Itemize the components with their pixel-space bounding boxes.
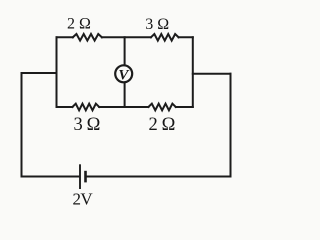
wire: outer right vertical [230,74,232,177]
svg-text:3 Ω: 3 Ω [74,115,100,135]
voltmeter U1 circle [115,65,132,82]
wire: outer left vertical [21,73,23,177]
resistor R1 2ohm top-left [73,34,102,41]
wire: bottom-left segment of bridge [57,106,73,108]
wire: bridge left edge [56,37,58,107]
resistor R4 2ohm bottom-right [148,104,175,111]
wire: bottom left of battery [22,176,80,178]
battery B1 short plate [84,171,87,183]
svg-text:2 Ω: 2 Ω [149,115,175,135]
wire: bottom-right segment of bridge [176,106,193,108]
wire: top middle segment [102,36,151,38]
wire: left connector [22,72,57,74]
wire: bottom middle segment of bridge [99,106,148,108]
wire: top-left segment [57,36,73,38]
wire: center vertical with voltmeter [124,37,126,107]
wire: bridge right edge [192,37,194,107]
battery B1 long plate [79,164,81,189]
wire: right connector [193,73,231,75]
resistor R3 3ohm bottom-left [72,104,99,111]
svg-text:2V: 2V [73,190,94,209]
wire: top-right segment [179,36,193,38]
svg-text:3 Ω: 3 Ω [145,16,169,33]
wire: bottom right of battery [86,176,231,178]
resistor R2 3ohm top-right [151,34,179,41]
svg-text:2 Ω: 2 Ω [67,16,91,33]
